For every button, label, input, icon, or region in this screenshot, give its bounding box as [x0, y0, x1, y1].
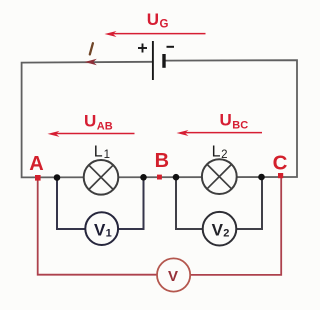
svg-text:2: 2 [223, 228, 229, 240]
svg-text:V: V [168, 268, 178, 285]
svg-text:U: U [84, 112, 96, 131]
svg-text:BC: BC [232, 120, 248, 132]
svg-text:L: L [212, 143, 221, 160]
svg-text:G: G [160, 19, 169, 31]
svg-text:A: A [29, 153, 43, 175]
svg-text:B: B [155, 150, 169, 172]
svg-text:U: U [147, 10, 159, 29]
svg-text:U: U [220, 111, 232, 130]
svg-text:AB: AB [97, 121, 113, 133]
svg-text:1: 1 [106, 228, 112, 240]
svg-text:2: 2 [221, 149, 227, 161]
svg-text:L: L [94, 144, 103, 161]
svg-text:1: 1 [104, 149, 110, 161]
svg-text:C: C [273, 151, 288, 174]
svg-text:V: V [94, 220, 106, 239]
svg-text:V: V [212, 221, 224, 240]
